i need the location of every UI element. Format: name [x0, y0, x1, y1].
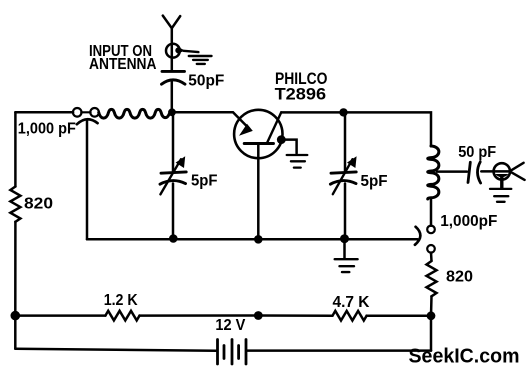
resistor R1 820 [10, 187, 20, 222]
svg-text:1,000 pF: 1,000 pF [18, 121, 76, 138]
wire C1 to node A [171, 81, 174, 113]
svg-text:5pF: 5pF [361, 173, 388, 190]
wire R1 to node F [14, 222, 17, 316]
connector P1 circles [73, 108, 99, 117]
wire node A to Q1 [175, 112, 249, 128]
variable capacitor C3 5pF [160, 112, 186, 238]
left vertical rail [14, 112, 17, 186]
wire C5 to jack J2 [481, 170, 509, 173]
wire bottom rail left [15, 349, 216, 351]
svg-text:5pF: 5pF [191, 173, 218, 190]
wire node F row [15, 314, 105, 317]
svg-text:T2896: T2896 [275, 85, 327, 103]
capacitor C6 1,000pF plate arc [415, 227, 420, 245]
variable capacitor C4 5pF [330, 112, 356, 238]
ground input jack [184, 51, 212, 64]
ground transistor case [287, 155, 308, 168]
inductor L1 [99, 109, 170, 118]
collector lead [267, 112, 281, 142]
wire left rail bottom [14, 316, 17, 349]
svg-text:1,000pF: 1,000pF [440, 213, 497, 230]
svg-text:12 V: 12 V [215, 317, 246, 334]
connector P2 circles [427, 226, 435, 253]
wire R2 to node G [430, 296, 433, 316]
antenna output < [510, 163, 525, 180]
node D dot [254, 235, 263, 244]
node F dot [11, 311, 21, 321]
wire R3 to node H [140, 314, 259, 317]
wire node B to L2 corner [344, 112, 432, 146]
base bar [244, 142, 273, 145]
wire R4 to node G [367, 314, 431, 317]
wire right rail bottom [430, 316, 433, 351]
inductor L2 [428, 146, 439, 199]
base lead [257, 144, 260, 240]
capacitor C1 50pF [162, 71, 186, 84]
wire jack to C1 [171, 28, 174, 70]
wire C2 lead down [86, 121, 89, 240]
case dot of Q1 [277, 135, 286, 144]
wire collector to node B [281, 111, 343, 114]
resistor R3 1.2K [105, 311, 139, 321]
node E dot [340, 234, 349, 243]
wire node H to R4 [258, 314, 332, 317]
svg-text:ANTENNA: ANTENNA [89, 56, 157, 73]
node C dot [169, 234, 178, 243]
emitter arrowhead [239, 124, 253, 136]
jack J1 input [166, 44, 185, 58]
wire mid horizontal [87, 238, 418, 241]
wire L2 to connector P2 [430, 200, 433, 226]
svg-text:50pF: 50pF [188, 73, 224, 90]
transistor Q1 PHILCO T2896 [234, 110, 282, 240]
capacitor C2 1,000pF plate arc [77, 119, 98, 124]
svg-text:50 pF: 50 pF [458, 144, 496, 161]
wire P2 to R2 [430, 253, 433, 262]
wire L2 tap [437, 170, 467, 173]
wire bottom rail right [248, 349, 432, 352]
node G dot [427, 311, 436, 320]
wire top-left horizontal [15, 111, 73, 114]
battery BT1 12V [218, 340, 247, 365]
resistor R4 4.7K [333, 311, 367, 321]
svg-text:1.2 K: 1.2 K [104, 292, 139, 309]
capacitor C5 50pF [468, 162, 481, 183]
antenna input V [163, 16, 180, 29]
node H dot [254, 311, 263, 320]
wire node E to ground [343, 239, 346, 259]
jack J2 output [494, 163, 510, 188]
svg-text:4.7 K: 4.7 K [333, 294, 371, 311]
node A dot [168, 108, 176, 116]
svg-text:SeekIC.com: SeekIC.com [409, 346, 520, 368]
svg-text:820: 820 [446, 268, 473, 285]
node B dot [339, 108, 347, 116]
svg-text:820: 820 [24, 196, 53, 213]
wire case to ground [281, 140, 296, 154]
ground middle [335, 259, 358, 272]
ground output jack [490, 189, 511, 202]
resistor R2 820 [427, 261, 437, 296]
